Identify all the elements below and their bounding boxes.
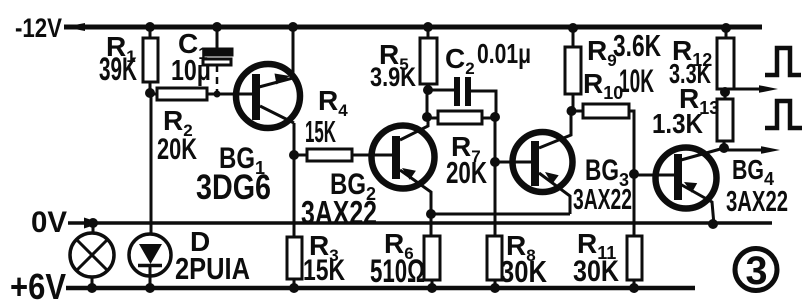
svg-text:15K: 15K — [303, 254, 345, 287]
svg-text:3.6K: 3.6K — [613, 28, 661, 63]
wire R2 node to diode — [150, 93, 153, 234]
resistor R6 — [430, 214, 433, 236]
wire +6V rail — [66, 286, 695, 291]
svg-text:39K: 39K — [99, 51, 137, 87]
node R7 right — [490, 112, 500, 122]
lamp — [92, 223, 95, 233]
wire output arrow 1 — [727, 88, 764, 91]
circled figure number 3 — [735, 249, 777, 291]
node 0V lamp junction — [88, 218, 98, 228]
wire BG1 emitter down to R3 — [293, 123, 296, 237]
svg-text:3AX22: 3AX22 — [301, 194, 377, 231]
svg-text:+6V: +6V — [10, 266, 66, 304]
node R6 +6V — [427, 283, 437, 293]
node R1-R2 junction — [145, 88, 155, 98]
svg-text:30K: 30K — [573, 255, 619, 288]
resistor R10 — [570, 110, 583, 113]
wire -12V top rail — [64, 25, 762, 30]
wire BG4 base lead — [634, 174, 674, 177]
node top rail junction R12 — [721, 23, 731, 33]
node diode +6V — [145, 283, 155, 293]
node R5-C2 — [423, 85, 433, 95]
svg-text:3: 3 — [746, 249, 768, 293]
node BG4 base junction — [629, 169, 639, 179]
resistor R1 — [149, 27, 152, 38]
node BG2 collector / R7 left — [422, 112, 432, 122]
node top rail junction BG1 collector — [288, 22, 298, 32]
wire BG3 base lead — [495, 161, 531, 164]
capacitor C2 — [428, 89, 455, 92]
node 0V BG4 emitter junction — [708, 219, 718, 229]
wire base node down to R11 — [633, 174, 636, 236]
transistor BG4 — [656, 148, 717, 209]
node R3 +6V — [289, 283, 299, 293]
resistor R8 — [487, 236, 502, 280]
resistor R13 — [717, 99, 733, 141]
capacitor C1 — [216, 27, 219, 49]
resistor R9 — [572, 28, 575, 47]
transistor BG3 — [513, 132, 573, 192]
svg-text:10K: 10K — [619, 63, 654, 99]
transistor BG2 — [372, 126, 435, 189]
resistor R4 — [294, 154, 307, 157]
svg-text:-12V: -12V — [15, 13, 62, 43]
resistor R3 — [287, 237, 302, 279]
svg-text:0.01μ: 0.01μ — [477, 38, 531, 69]
svg-text:15K: 15K — [305, 114, 336, 149]
node arrow on -12V rail — [64, 23, 85, 31]
svg-text:510Ω: 510Ω — [370, 253, 425, 289]
svg-text:R10: R10 — [583, 68, 623, 103]
svg-text:30K: 30K — [500, 254, 548, 289]
transistor BG1 — [236, 64, 300, 128]
node top rail junction R9 — [568, 23, 578, 33]
wire collector node up to R5/C2 node — [426, 90, 429, 117]
svg-text:3AX22: 3AX22 — [726, 186, 788, 218]
svg-text:BG4: BG4 — [732, 154, 774, 189]
wire output arrow 2 — [726, 149, 765, 152]
node BG4 collector — [719, 143, 729, 153]
resistor R11 — [627, 236, 642, 280]
node lamp +6V — [87, 283, 97, 293]
node R8 +6V — [490, 283, 500, 293]
wire 0V rail — [68, 221, 772, 225]
node R11 +6V — [629, 283, 639, 293]
svg-text:20K: 20K — [446, 155, 487, 190]
svg-text:20K: 20K — [157, 133, 197, 166]
node arrow on 0V rail — [84, 218, 101, 229]
svg-text:0V: 0V — [31, 206, 67, 239]
node top rail junction R1 — [145, 22, 155, 32]
node top rail junction R5 — [423, 22, 433, 32]
svg-text:C2: C2 — [445, 43, 475, 78]
wire R7 right down to R8, BG3 base tap — [494, 117, 497, 236]
node top rail junction C1 — [212, 22, 222, 32]
node R9-R10-BG3 collector — [567, 106, 577, 116]
wire emitter bus BG2-BG3 — [431, 213, 570, 216]
pulse waveform symbol 2 — [765, 101, 802, 128]
node C1 to base wire — [214, 91, 221, 98]
pulse waveform symbol 1 — [765, 48, 801, 75]
resistor R2 — [150, 93, 157, 96]
node R4 junction — [289, 150, 299, 160]
svg-text:10μ: 10μ — [171, 55, 211, 87]
svg-text:3.9K: 3.9K — [370, 62, 416, 92]
node emitter bus R6 — [426, 209, 436, 219]
svg-text:3AX22: 3AX22 — [573, 184, 632, 216]
resistor R12 — [725, 28, 728, 38]
svg-text:1.3K: 1.3K — [652, 108, 703, 139]
svg-text:3DG6: 3DG6 — [196, 168, 271, 207]
photodiode D 2PU1A — [129, 234, 171, 276]
resistor R5 — [427, 27, 430, 38]
node BG3 base junction — [490, 157, 500, 167]
resistor R7 — [427, 117, 438, 120]
node R12-R13 output tap — [720, 87, 730, 97]
svg-text:2PUIA: 2PUIA — [175, 251, 250, 286]
